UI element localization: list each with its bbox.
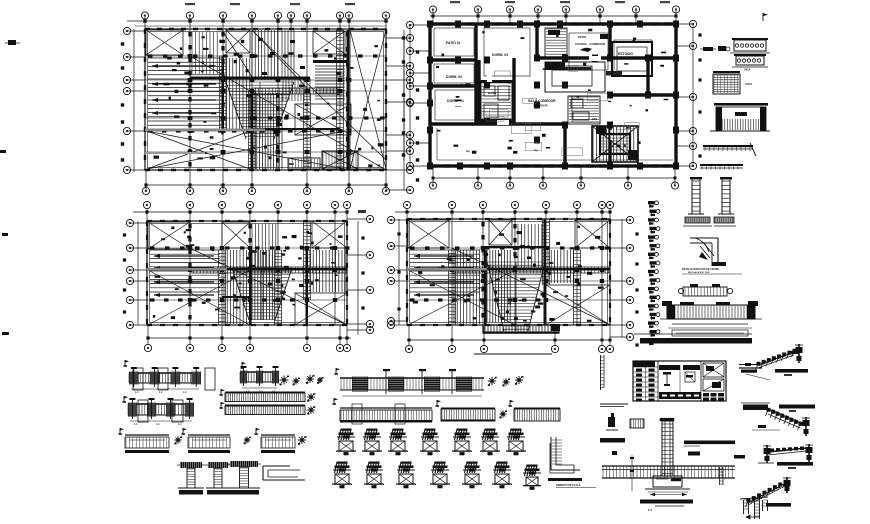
svg-text:DORM. 02: DORM. 02 xyxy=(446,75,462,79)
svg-text:Z-1: Z-1 xyxy=(648,508,652,512)
svg-text:ESC: ESC xyxy=(592,117,597,121)
svg-text:DETALLE DOBLADO DE FIERRO: DETALLE DOBLADO DE FIERRO xyxy=(682,268,719,271)
svg-text:DORM. 03: DORM. 03 xyxy=(492,53,508,57)
svg-text:PATIO: PATIO xyxy=(578,35,587,39)
svg-text:tag: tag xyxy=(466,150,470,153)
svg-text:BAÑO: BAÑO xyxy=(488,90,497,95)
svg-text:CIMIENTO DE PLACA: CIMIENTO DE PLACA xyxy=(556,484,581,487)
svg-text:SALA COMEDOR: SALA COMEDOR xyxy=(528,99,556,103)
svg-text:ESTUDIO: ESTUDIO xyxy=(618,52,633,56)
svg-text:VIGA: VIGA xyxy=(744,68,750,72)
svg-text:COCINA - COMEDOR: COCINA - COMEDOR xyxy=(575,42,606,46)
svg-text:DORM. 01: DORM. 01 xyxy=(447,99,464,103)
svg-text:PATIO 01: PATIO 01 xyxy=(446,41,461,45)
svg-text:COMEDOR: COMEDOR xyxy=(533,104,548,108)
svg-text:EN PLACA ESC 1/25: EN PLACA ESC 1/25 xyxy=(688,271,710,274)
